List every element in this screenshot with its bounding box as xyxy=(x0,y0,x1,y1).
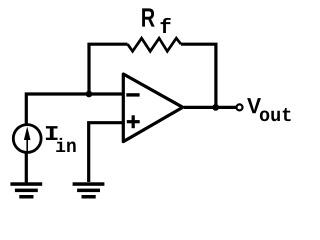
label f subscript of Rf xyxy=(161,18,171,33)
op-amp plus sign xyxy=(127,120,140,123)
wire : op-amp output to terminal xyxy=(184,106,236,109)
label out subscript of Vout xyxy=(260,111,269,122)
wire : current source top to inverting-input node xyxy=(26,94,122,125)
wire : non-inverting input down to ground xyxy=(89,123,123,182)
wire : feedback loop right side down to output node xyxy=(181,44,216,107)
op-amp U1 xyxy=(123,74,183,142)
node B : output junction dot xyxy=(212,104,219,111)
label V of Vout xyxy=(247,98,261,113)
op-amp minus sign xyxy=(126,93,139,96)
label in subscript of Iin xyxy=(56,138,65,152)
label I of Iin xyxy=(46,126,58,140)
terminal Vout : open circle xyxy=(237,104,243,110)
resistor Rf xyxy=(128,38,181,51)
wire : feedback loop up-left from node xyxy=(89,44,128,94)
ground : under non-inverting input xyxy=(73,182,105,186)
current source Iin xyxy=(13,125,41,153)
node A : inverting input junction dot xyxy=(86,91,93,98)
label R of Rf xyxy=(142,8,155,26)
ground : under current source xyxy=(10,182,42,186)
wire : current source bottom to ground xyxy=(25,152,28,183)
